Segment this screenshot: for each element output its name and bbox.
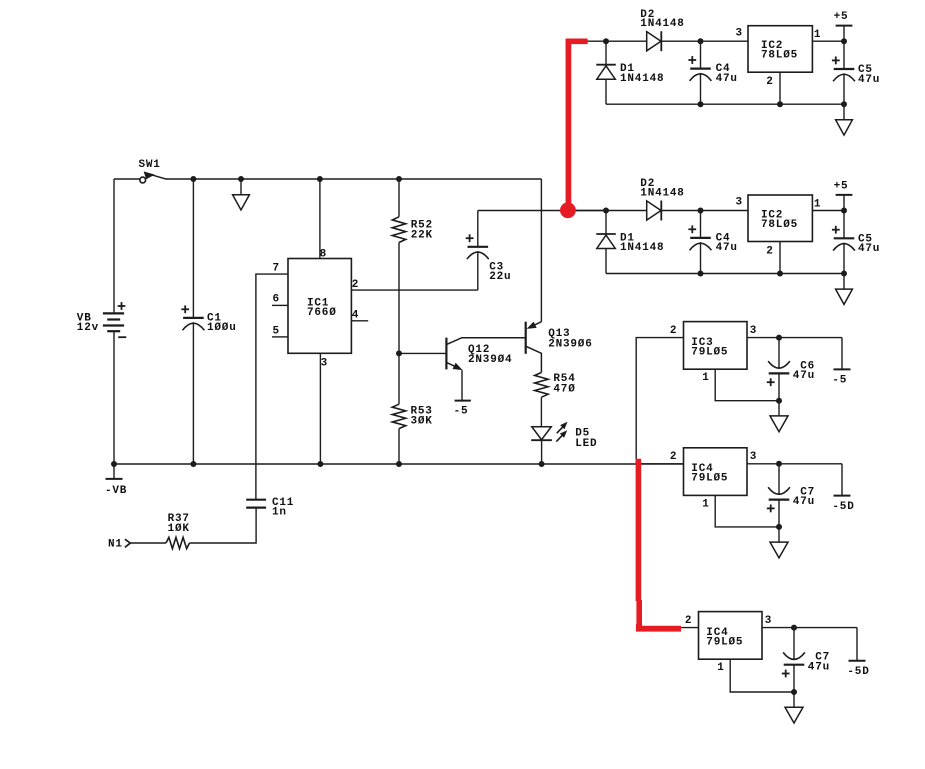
svg-text:47u: 47u bbox=[858, 74, 880, 86]
svg-text:79LØ5: 79LØ5 bbox=[706, 637, 743, 649]
svg-text:LED: LED bbox=[575, 438, 597, 450]
svg-text:1: 1 bbox=[717, 662, 724, 674]
svg-text:2N39Ø6: 2N39Ø6 bbox=[548, 338, 592, 350]
svg-text:766Ø: 766Ø bbox=[307, 307, 337, 319]
svg-text:47u: 47u bbox=[716, 73, 738, 85]
svg-text:+5: +5 bbox=[834, 11, 849, 23]
svg-text:1N4148: 1N4148 bbox=[620, 73, 664, 85]
svg-text:2: 2 bbox=[685, 615, 692, 627]
svg-text:22K: 22K bbox=[411, 230, 433, 242]
svg-text:3: 3 bbox=[765, 615, 772, 627]
svg-text:3: 3 bbox=[735, 27, 742, 39]
svg-text:3ØK: 3ØK bbox=[411, 416, 433, 428]
svg-text:79LØ5: 79LØ5 bbox=[691, 347, 728, 359]
svg-text:-VB: -VB bbox=[105, 485, 127, 497]
svg-text:-5: -5 bbox=[832, 375, 847, 387]
svg-text:1n: 1n bbox=[272, 506, 287, 518]
svg-text:1ØØu: 1ØØu bbox=[207, 322, 237, 334]
svg-text:78LØ5: 78LØ5 bbox=[761, 219, 798, 231]
svg-text:1: 1 bbox=[702, 372, 709, 384]
svg-text:47u: 47u bbox=[808, 661, 830, 673]
svg-text:5: 5 bbox=[272, 325, 279, 337]
svg-text:22u: 22u bbox=[489, 271, 511, 283]
svg-text:3: 3 bbox=[750, 325, 757, 337]
svg-text:4: 4 bbox=[352, 309, 359, 321]
svg-text:78LØ5: 78LØ5 bbox=[761, 50, 798, 62]
svg-text:47u: 47u bbox=[858, 243, 880, 255]
svg-text:-5: -5 bbox=[454, 405, 469, 417]
svg-text:-5D: -5D bbox=[832, 501, 854, 513]
svg-text:N1: N1 bbox=[108, 539, 123, 551]
svg-text:SW1: SW1 bbox=[139, 159, 161, 171]
svg-text:1N4148: 1N4148 bbox=[640, 188, 684, 200]
svg-text:2N39Ø4: 2N39Ø4 bbox=[468, 354, 512, 366]
svg-text:2: 2 bbox=[352, 279, 359, 291]
svg-text:-5D: -5D bbox=[847, 666, 869, 678]
svg-text:2: 2 bbox=[670, 451, 677, 463]
svg-text:2: 2 bbox=[670, 325, 677, 337]
svg-text:+5: +5 bbox=[834, 181, 849, 193]
svg-text:1N4148: 1N4148 bbox=[640, 18, 684, 30]
svg-text:12v: 12v bbox=[77, 322, 99, 334]
svg-text:2: 2 bbox=[766, 76, 773, 88]
svg-text:6: 6 bbox=[272, 294, 279, 306]
svg-text:3: 3 bbox=[321, 358, 328, 370]
svg-text:79LØ5: 79LØ5 bbox=[691, 473, 728, 485]
svg-text:3: 3 bbox=[750, 451, 757, 463]
svg-text:1: 1 bbox=[814, 29, 821, 41]
svg-text:47Ø: 47Ø bbox=[553, 383, 575, 395]
svg-text:47u: 47u bbox=[793, 370, 815, 382]
svg-text:47u: 47u bbox=[716, 242, 738, 254]
svg-text:1ØK: 1ØK bbox=[168, 523, 190, 535]
svg-text:8: 8 bbox=[320, 248, 327, 260]
svg-text:2: 2 bbox=[766, 246, 773, 258]
svg-text:1: 1 bbox=[814, 199, 821, 211]
svg-text:1: 1 bbox=[702, 498, 709, 510]
svg-text:47u: 47u bbox=[793, 496, 815, 508]
svg-text:3: 3 bbox=[735, 197, 742, 209]
svg-text:1N4148: 1N4148 bbox=[620, 242, 664, 254]
svg-text:7: 7 bbox=[272, 262, 279, 274]
